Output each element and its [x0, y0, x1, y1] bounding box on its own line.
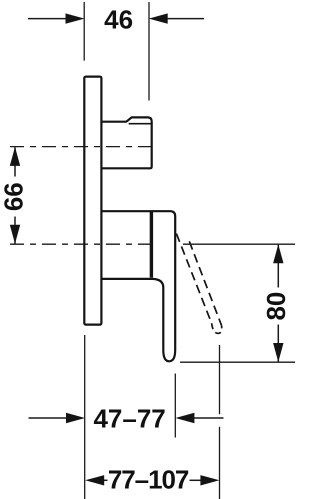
extension line right of centerline to 80-dim — [183, 243, 295, 245]
dimension 46 right arrow — [166, 18, 204, 20]
dashed lever tip arc — [212, 323, 222, 333]
extension line below plate (wall line) — [84, 335, 86, 499]
dimension 47-77 left arrow — [29, 417, 68, 419]
svg-text:80: 80 — [261, 292, 291, 321]
svg-text:77–107: 77–107 — [108, 464, 189, 494]
dimension 47-77 right arrow — [193, 417, 224, 419]
mixer block front edge (thick) — [150, 211, 153, 277]
wall plate (escutcheon) side view — [84, 77, 101, 325]
extension line below lever tip (47-77 dim) — [174, 374, 176, 438]
spout inner line — [129, 123, 152, 125]
spout block (upper body) — [101, 117, 151, 168]
svg-text:46: 46 — [104, 4, 133, 34]
extension line below dashed lever tip (77-107 dim) — [219, 345, 221, 499]
extension line top-left (46 dim) — [83, 2, 85, 61]
svg-text:47–77: 47–77 — [93, 403, 165, 433]
svg-text:66: 66 — [0, 182, 28, 211]
dashed lever (open position) line A — [176, 234, 211, 324]
dimension 80 line and arrows — [277, 245, 279, 362]
centerline upper (spout axis) — [4, 146, 152, 148]
dimension 46 left arrow — [28, 18, 67, 20]
mixer block with lever (lower body) — [101, 211, 175, 361]
dimension 80 extension bottom line — [180, 361, 295, 363]
dashed lever (open position) line B — [189, 241, 221, 325]
centerline lower (cartridge axis) — [4, 243, 152, 245]
extension line top-right (46 dim) — [148, 2, 150, 101]
dimension 77-107 right arrow — [190, 479, 202, 481]
dimension 66 line and arrows — [14, 147, 16, 244]
dimension 77-107 left arrow — [103, 479, 108, 481]
